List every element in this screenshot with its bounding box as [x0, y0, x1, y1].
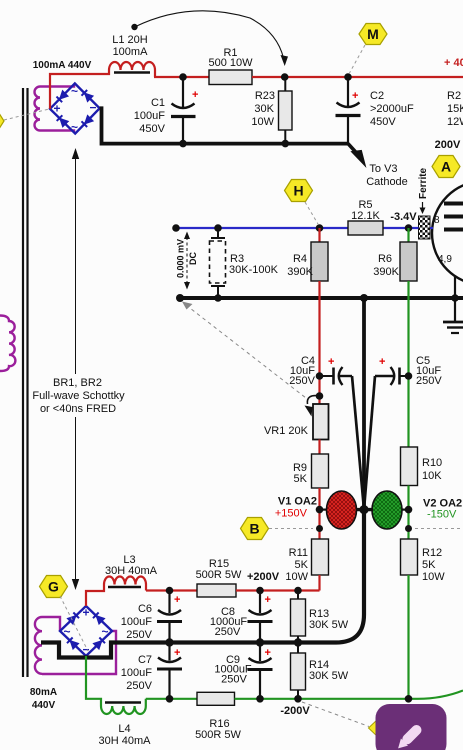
node junction C6/C7 bus: [165, 638, 173, 646]
node mid bus left end: [176, 294, 184, 302]
capacitor C6 100uF 250V: [121, 591, 182, 643]
node V1 left: [316, 506, 324, 514]
transformer secondary winding (upper, 100mA 440V): [35, 85, 75, 133]
svg-text:>2000uF: >2000uF: [370, 103, 414, 115]
node junction R6 top: [405, 224, 413, 232]
inductor L3 30H 40mA: [104, 577, 146, 591]
svg-text:To V3: To V3: [369, 163, 397, 175]
svg-text:M: M: [367, 26, 379, 42]
svg-text:−: −: [89, 101, 96, 115]
wire green rail R16 to right edge with curve: [235, 691, 463, 699]
svg-text:100uF: 100uF: [134, 110, 165, 122]
svg-text:+: +: [192, 89, 198, 101]
wire red R9 to V1 node: [318, 488, 320, 539]
node junction center net / bus: [360, 294, 368, 302]
wire black 0V bus top: [100, 108, 348, 143]
hexagon node B with dashed line: [241, 518, 463, 540]
inductor L4 30H 40mA: [101, 699, 146, 714]
svg-text:A: A: [441, 159, 451, 175]
L3 core bar: [108, 586, 141, 589]
svg-text:R23: R23: [255, 90, 275, 102]
wire thick diagonal C4 to center node: [352, 376, 364, 510]
svg-text:100mA: 100mA: [113, 46, 149, 58]
BR2 polarity marks: [63, 606, 108, 657]
wire green R12 to -200V rail: [407, 575, 409, 699]
svg-text:+: +: [53, 102, 60, 116]
svg-text:~: ~: [101, 625, 108, 639]
node junction R13/R14 bus: [294, 638, 302, 646]
svg-text:R6: R6: [378, 253, 392, 265]
ferrite bead on pin 8: [419, 216, 431, 239]
wire thick black center net: [362, 298, 366, 510]
node center between tubes: [359, 505, 368, 514]
svg-text:450V: 450V: [370, 116, 396, 128]
node junction C8/C9 bus: [256, 638, 264, 646]
bridge rectifier BR1: [50, 83, 100, 134]
svg-text:10K: 10K: [422, 470, 442, 482]
svg-text:450V: 450V: [139, 123, 165, 135]
svg-text:100uF: 100uF: [121, 616, 152, 628]
wire red +rail from BR1 to L1: [50, 70, 109, 109]
transformer primary winding (left edge): [0, 316, 15, 372]
svg-text:+150V: +150V: [275, 508, 308, 520]
wire green -200V rail: [146, 698, 197, 700]
wire red column (blue rail to R4): [318, 228, 320, 242]
svg-text:500R 5W: 500R 5W: [195, 729, 241, 741]
capacitor C4 10uF 250V: [289, 355, 352, 387]
svg-text:5K: 5K: [294, 473, 308, 485]
svg-text:+: +: [352, 90, 358, 102]
wire red column (R4 to C4/VR1): [318, 281, 320, 404]
diode BR2 top-right (points to + top corner): [93, 612, 105, 624]
node V2 right: [405, 506, 413, 514]
svg-text:L1 20H: L1 20H: [112, 34, 148, 46]
hexagon node M: [350, 24, 388, 74]
svg-text:C6: C6: [138, 603, 152, 615]
svg-text:BR1, BR2: BR1, BR2: [53, 377, 102, 389]
edit button (purple, pencil): [376, 704, 447, 750]
node junction C7 bottom: [166, 695, 174, 703]
wire red +200V rail: [146, 589, 197, 591]
resistor R11 5K 10W: [312, 539, 329, 575]
wire green column (blue rail to R6): [407, 228, 409, 242]
svg-text:−: −: [82, 643, 89, 657]
svg-text:100mA 440V: 100mA 440V: [33, 60, 92, 71]
svg-text:440V: 440V: [32, 700, 56, 711]
svg-text:+: +: [174, 647, 180, 659]
wire green BR2 to L4: [86, 656, 101, 706]
svg-text:DC: DC: [188, 252, 198, 265]
wire red rail L1 to R1: [154, 76, 209, 78]
node junction C8 top: [256, 587, 264, 595]
svg-text:100uF: 100uF: [121, 667, 152, 679]
svg-text:+: +: [82, 606, 89, 620]
wire red VR1 to R9: [318, 440, 320, 455]
annotation dashed 0.000mV node to VR1 wiper: [182, 302, 306, 399]
svg-text:-150V: -150V: [427, 509, 457, 521]
svg-text:+: +: [379, 356, 385, 368]
label Ferrite (rotated) with arrow: [418, 167, 429, 214]
wire blue grid rail: [176, 227, 348, 229]
capacitor C1 100uF 450V: [134, 77, 199, 144]
svg-text:10W: 10W: [285, 571, 308, 583]
regulator tube V1 OA2: [320, 491, 357, 529]
svg-text:390K: 390K: [373, 266, 399, 278]
wire red rail R15 to R11 riser: [236, 589, 320, 591]
resistor R12 5K 10W: [401, 539, 418, 575]
wire green column (R6 to C5/R10): [407, 281, 409, 447]
wire cathode to ground: [454, 276, 456, 322]
svg-text:G: G: [48, 579, 59, 595]
wire green R10 to V2 node: [407, 486, 409, 540]
svg-text:5K: 5K: [295, 559, 309, 571]
regulator tube V2 OA2: [372, 491, 409, 529]
svg-text:C1: C1: [151, 97, 165, 109]
transformer T1 core: [23, 88, 28, 677]
svg-text:30K 5W: 30K 5W: [309, 670, 349, 682]
potentiometer VR1 20K: [264, 392, 329, 439]
svg-text:200V: 200V: [435, 139, 461, 151]
bridge rectifier BR2: [60, 606, 112, 657]
node junction C9 bottom: [256, 695, 264, 703]
ground: [443, 322, 463, 333]
tube V3 envelope (partial at right edge): [432, 181, 463, 285]
svg-text:250V: 250V: [126, 680, 152, 692]
node junction cathode/bus: [451, 294, 459, 302]
node junction R3 top: [214, 224, 222, 232]
resistor R16 500R 5W: [197, 692, 235, 705]
svg-text:-200V: -200V: [280, 705, 310, 717]
callout yellow triangle: [369, 718, 380, 739]
svg-text:250V: 250V: [126, 629, 152, 641]
svg-text:R12: R12: [422, 547, 442, 559]
svg-text:Full-wave Schottky: Full-wave Schottky: [32, 390, 125, 402]
annotation arrow down to BR2: [72, 417, 79, 590]
hexagon node H: [285, 180, 319, 225]
resistor R5 12.1K: [348, 221, 383, 235]
svg-text:390K: 390K: [287, 266, 313, 278]
node junction R23 bottom: [282, 140, 290, 148]
resistor R13 30K 5W: [291, 591, 349, 643]
inductor L1 20H 100mA: [109, 62, 155, 77]
svg-text:R11: R11: [289, 547, 308, 559]
svg-text:0.000 mV: 0.000 mV: [176, 239, 186, 278]
svg-text:500 10W: 500 10W: [208, 57, 253, 69]
svg-text:C7: C7: [138, 654, 152, 666]
svg-text:or <40ns FRED: or <40ns FRED: [40, 403, 116, 415]
svg-text:12W: 12W: [447, 116, 463, 128]
svg-text:+: +: [174, 594, 180, 606]
svg-text:Ferrite: Ferrite: [418, 167, 429, 199]
annotation arc from L1 node to R23 node: [131, 11, 288, 66]
node junction R23 top: [281, 73, 289, 81]
svg-text:30K 5W: 30K 5W: [309, 619, 349, 631]
diode BR2 bottom-right (points to right corner): [93, 637, 105, 649]
resistor R3 30K-100K (dashed): [210, 228, 279, 298]
node blue rail left end: [172, 224, 180, 232]
diode BR2 top-left (points to + top corner): [67, 612, 79, 624]
svg-text:R2: R2: [447, 90, 461, 102]
node junction R4 top: [316, 224, 324, 232]
resistor R4 390K: [311, 242, 328, 281]
resistor R1 500 10W: [209, 70, 252, 85]
wire thick black 0V bottom bus with jog and curve up: [41, 510, 364, 658]
svg-text:30K-100K: 30K-100K: [229, 264, 279, 276]
diode BR2 bottom-left (points to left corner): [67, 637, 79, 649]
svg-text:15K: 15K: [447, 103, 463, 115]
label 0.000 mV DC (rotated) with measure arrows: [176, 232, 199, 290]
capacitor C9 1000uF 250V: [214, 643, 272, 699]
wire thick diagonal C5 to center node: [364, 376, 375, 510]
svg-text:10W: 10W: [422, 571, 445, 583]
svg-text:250V: 250V: [416, 375, 442, 387]
node junction C1 top: [179, 73, 187, 81]
capacitor C5 10uF 250V: [375, 355, 442, 387]
svg-text:H: H: [293, 183, 303, 199]
annotation arrow up to BR1: [72, 148, 79, 374]
annotation dashed -200V to edit note: [302, 702, 369, 727]
svg-text:-3.4V: -3.4V: [390, 211, 417, 223]
svg-text:+: +: [265, 647, 271, 659]
svg-text:+: +: [265, 594, 271, 606]
capacitor C7 100uF 250V: [121, 643, 182, 699]
wire black 0V mid bus: [180, 296, 463, 300]
resistor R14 30K 5W: [291, 643, 349, 699]
resistor R23 30K 10W: [251, 77, 292, 144]
resistor R15 500R 5W: [197, 584, 236, 597]
svg-text:4,9: 4,9: [438, 254, 452, 265]
capacitor C2 >2000uF 450V: [336, 77, 415, 144]
BR1 polarity marks: [53, 84, 96, 134]
node junction B level green: [405, 525, 412, 532]
svg-text:+: +: [328, 356, 334, 368]
svg-text:10W: 10W: [251, 116, 274, 128]
svg-text:250V: 250V: [289, 375, 315, 387]
wire arrow To V3 Cathode: [348, 144, 408, 188]
resistor R9 5K: [312, 454, 329, 488]
tube V3 electrodes: [444, 202, 463, 206]
capacitor C8 1000uF 250V: [210, 591, 273, 643]
node junction C6 top: [166, 587, 174, 595]
resistor R6 390K: [400, 242, 417, 281]
svg-text:12.1K: 12.1K: [351, 210, 380, 222]
svg-text:B: B: [249, 521, 259, 537]
hexagon node G with dashed line to BR2: [40, 576, 89, 652]
svg-text:+ 400V: + 400V: [444, 57, 463, 69]
node junction R13 top: [294, 587, 302, 595]
resistor R10 10K: [401, 447, 418, 486]
svg-text:V1 OA2: V1 OA2: [278, 496, 317, 508]
svg-text:Cathode: Cathode: [366, 176, 408, 188]
node junction green column bottom: [405, 695, 413, 703]
svg-text:30H 40mA: 30H 40mA: [105, 565, 158, 577]
svg-text:250V: 250V: [221, 674, 247, 686]
wire red BR2 to L3: [86, 585, 104, 607]
hexagon node A: [432, 156, 460, 178]
svg-text:+200V: +200V: [247, 571, 280, 583]
svg-text:L4: L4: [118, 723, 130, 735]
svg-text:80mA: 80mA: [30, 687, 57, 698]
transformer secondary winding (lower, 80mA 440V): [35, 617, 116, 674]
svg-text:C2: C2: [370, 90, 384, 102]
svg-text:VR1 20K: VR1 20K: [264, 425, 309, 437]
L1 core bar: [114, 71, 150, 74]
diode BR1 bottom-right (points to bottom corner): [81, 115, 93, 127]
wire red rail R1 to right edge: [252, 76, 463, 78]
svg-text:8: 8: [434, 215, 440, 226]
svg-text:30K: 30K: [254, 103, 274, 115]
diode BR1 top-right (points to top corner): [81, 90, 93, 102]
node junction R14 bottom: [294, 695, 302, 703]
hexagon node (cut) at left edge: [0, 109, 50, 132]
wire thick stub between tubes: [356, 508, 373, 511]
svg-text:R4: R4: [293, 253, 307, 265]
node junction B level red: [316, 525, 323, 532]
svg-text:~: ~: [63, 625, 70, 639]
diode BR1 bottom-left (points to + left corner): [57, 115, 69, 127]
node junction R3 bottom: [214, 294, 222, 302]
node junction C2 top: [344, 73, 352, 81]
svg-text:500R 5W: 500R 5W: [196, 569, 242, 581]
node junction C1 bottom: [179, 140, 187, 148]
L4 core bar: [105, 701, 141, 704]
wire red R11 to +200V rail: [318, 575, 320, 591]
svg-text:30H 40mA: 30H 40mA: [99, 735, 152, 747]
svg-text:~: ~: [71, 84, 78, 98]
svg-text:250V: 250V: [215, 626, 241, 638]
svg-text:5K: 5K: [422, 559, 436, 571]
svg-text:~: ~: [71, 120, 78, 134]
diode BR1 top-left (points to + left corner): [56, 91, 68, 103]
svg-text:R10: R10: [422, 457, 442, 469]
